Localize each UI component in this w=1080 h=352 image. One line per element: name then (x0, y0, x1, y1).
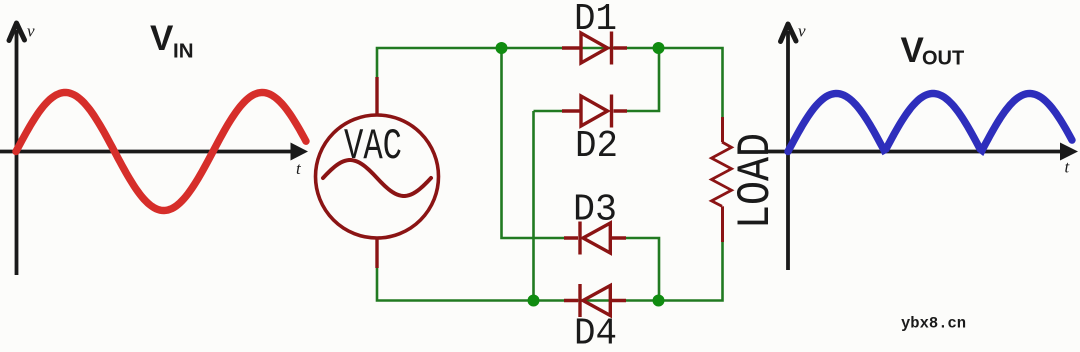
AC source top lead (375, 77, 378, 114)
input sine wave (16, 93, 306, 211)
watermark ybx8.cn (901, 315, 966, 333)
svg-text:D2: D2 (575, 125, 618, 168)
svg-text:VAC: VAC (344, 122, 402, 172)
label LOAD (730, 133, 782, 229)
svg-text:D1: D1 (574, 0, 617, 41)
wire D3 output to bottom-right node (624, 238, 659, 301)
AC source bottom lead (375, 238, 378, 268)
left axis label t (296, 159, 302, 178)
svg-text:v: v (798, 22, 806, 41)
right graph horizontal axis arrowhead (1060, 143, 1078, 161)
diode D2 (562, 95, 627, 128)
svg-text:LOAD: LOAD (730, 133, 782, 229)
resistor LOAD zigzag (712, 142, 732, 206)
node junction dot top-left (496, 42, 508, 54)
svg-text:D3: D3 (573, 189, 617, 232)
svg-text:OUT: OUT (922, 48, 964, 70)
svg-text:v: v (27, 22, 35, 41)
diode D3 (564, 222, 626, 255)
wire left riser from top-left node down to D3 row (502, 48, 567, 238)
svg-text:IN: IN (173, 40, 194, 63)
label V_IN (150, 19, 194, 63)
svg-text:t: t (296, 159, 302, 178)
AC source VAC circle (316, 115, 439, 238)
label VAC (344, 122, 402, 172)
wire D2 input riser from bottom-left node (534, 111, 567, 301)
label D4 (574, 313, 617, 352)
left graph horizontal axis arrowhead (291, 143, 309, 161)
left graph vertical axis (15, 30, 19, 275)
right axis label v (798, 22, 806, 41)
AC source sine symbol (323, 160, 431, 196)
left graph horizontal axis (0, 150, 295, 154)
svg-text:ybx8.cn: ybx8.cn (901, 315, 966, 333)
svg-text:V: V (901, 31, 925, 70)
resistor LOAD bottom lead (721, 206, 724, 242)
wire bottom rail VAC bottom to load bottom (377, 240, 723, 301)
left graph vertical axis arrowhead (9, 23, 25, 41)
node junction dot bottom-right (653, 295, 665, 307)
label V_OUT (901, 31, 965, 70)
left axis label v (27, 22, 35, 41)
right graph horizontal axis (765, 150, 1064, 154)
svg-text:D4: D4 (574, 313, 617, 352)
node junction dot top-right (653, 42, 665, 54)
right graph vertical axis (786, 31, 790, 270)
node junction dot bottom-left (528, 295, 540, 307)
wire VAC top to top rail across to load top corner (377, 48, 723, 119)
label D2 (575, 125, 618, 168)
right axis label t (1065, 158, 1071, 177)
diode D1 (562, 32, 627, 65)
label D1 (574, 0, 617, 41)
svg-text:t: t (1065, 158, 1071, 177)
right graph vertical axis arrowhead (781, 24, 797, 42)
wire D2 output up to top-right node (624, 48, 659, 111)
diode D4 (564, 284, 626, 317)
svg-text:V: V (150, 19, 174, 58)
output rectified wave (788, 94, 1072, 152)
label D3 (573, 189, 617, 232)
resistor LOAD top lead (721, 117, 724, 142)
